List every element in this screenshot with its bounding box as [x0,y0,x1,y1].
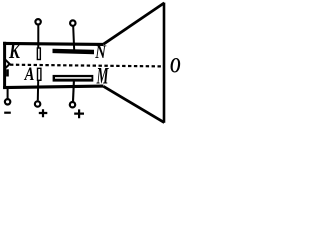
plus sign 1 [39,109,48,117]
top terminal 2 circle [70,20,75,25]
tube neck top wall [3,43,103,44]
tube neck left wall [3,42,6,89]
top terminal 1 circle [35,19,40,24]
svg-text:O: O [170,53,181,78]
plate M white stripe [55,77,92,79]
bottom terminal 3 circle [70,102,75,107]
cathode bar [6,69,9,76]
svg-text:M: M [96,64,109,90]
top terminal 1 stem (to anode) [37,25,39,48]
cathode K chevron [5,59,10,69]
funnel top edge [103,3,164,44]
top terminal 2 stem (to plate N) [73,27,74,51]
deflection plate M (hollow) [53,75,94,82]
beam axis dashed line [10,65,163,67]
plate M stem through wall to bottom terminal 3 [72,81,75,101]
svg-text:K: K [8,39,21,63]
anode A upper ring half [37,48,40,60]
svg-text:A: A [24,65,35,85]
plus sign 2 [74,109,84,118]
funnel bottom edge [103,86,164,122]
bottom terminal 1 stem [7,88,9,99]
bottom terminal 2 circle [35,101,40,106]
svg-text:N: N [94,43,106,63]
deflection plate N (solid, slight slant) [53,49,95,55]
bottom terminal 1 circle [5,99,10,104]
minus sign [4,112,11,114]
anode A lower ring half [38,68,41,80]
tube neck bottom wall [3,86,103,88]
anode lower stem through wall to bottom terminal 2 [37,81,39,100]
screen (right vertical edge) [163,3,166,123]
